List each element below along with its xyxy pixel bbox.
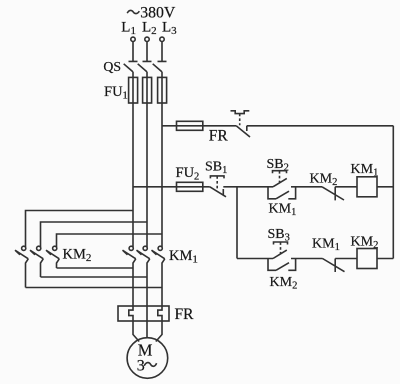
contact KM1 main pole 2: [137, 246, 150, 306]
contact KM1 NC interlock: [323, 259, 345, 273]
motor M: [127, 338, 168, 379]
svg-text:FR: FR: [209, 128, 229, 145]
wire to coil KM1: [335, 186, 357, 188]
svg-text:M: M: [138, 340, 153, 359]
wire KM2 aux branch right: [288, 259, 295, 271]
relay FR NC contact: [236, 126, 250, 137]
fuse FU2b on rung 2: [177, 182, 203, 191]
wire control rung 2 from L1 to fuse: [133, 186, 210, 188]
button SB1 actuator: [210, 176, 224, 179]
contact KM2 aux NO (self-hold): [276, 263, 289, 271]
wire main line 3: [161, 77, 163, 247]
wire SB2 right lead: [291, 186, 322, 188]
terminal L3: [160, 37, 164, 41]
wire KM1 aux branch left: [268, 187, 276, 199]
relay FR heater box: [118, 306, 169, 321]
button SB1 NC contact: [210, 187, 226, 197]
wire L3 to QS: [161, 42, 163, 62]
contact KM2 main pole 2: [30, 246, 43, 277]
svg-text:QS: QS: [103, 59, 121, 74]
wire rung 1 to right rail: [247, 125, 393, 127]
svg-text:3: 3: [137, 358, 145, 375]
wire main line 1: [132, 77, 134, 247]
wire to coil KM2: [335, 258, 357, 260]
button SB2 NO contact: [273, 178, 287, 186]
contact KM2 main pole 3: [46, 246, 59, 268]
svg-text:FR: FR: [175, 306, 195, 323]
button SB2 actuator: [273, 171, 287, 174]
wire rung 2: [237, 258, 273, 260]
wire control rung 1 from L3 to fuse: [162, 125, 236, 127]
fuse FU1 pole 1: [129, 77, 138, 103]
contact KM1 aux NO (self-hold): [276, 191, 289, 199]
wire branch L1 to KM2 pole 1: [26, 211, 134, 248]
coil KM2: [357, 249, 377, 269]
wire branch L3 to KM2 pole 3: [57, 234, 163, 247]
wire L1 to QS: [132, 42, 134, 62]
coil KM1: [357, 177, 377, 197]
relay FR heater element 1: [129, 306, 133, 321]
wire right rail: [392, 126, 394, 259]
node ~380V supply label: [127, 10, 139, 13]
terminal L1: [131, 37, 135, 41]
relay FR heater element 3: [158, 306, 162, 321]
wire main line 2: [146, 77, 148, 247]
relay FR thermal actuator: [231, 111, 250, 114]
wire heater to motor 1: [133, 321, 139, 342]
wire KM2 pole 3 output to line 1: [57, 267, 134, 269]
wire branch down to rung 2: [236, 187, 238, 259]
contact KM1 main pole 1: [123, 246, 136, 306]
terminal L2: [145, 37, 149, 41]
wire coil KM2 to rail: [377, 258, 393, 260]
fuse FU2a on rung 1: [177, 121, 203, 130]
wire KM2 pole 2 output to line 2: [41, 276, 148, 278]
wire line 2 through heater: [146, 306, 148, 321]
wire heater to motor 2: [146, 321, 148, 338]
fuse FU1 pole 2: [143, 77, 152, 103]
contact KM2 main pole 1: [15, 246, 28, 287]
button SB3 NO contact: [273, 250, 287, 258]
wire heater to motor 3: [156, 321, 162, 342]
fuse FU1 pole 3: [158, 77, 167, 103]
wire branch L2 to KM2 pole 2: [41, 222, 148, 247]
switch QS pole 2: [138, 61, 152, 77]
wire SB1 to SB2: [223, 186, 273, 188]
wire KM1 aux branch right: [288, 187, 295, 199]
wire L2 to QS: [146, 42, 148, 62]
switch QS pole 3: [153, 61, 167, 77]
switch QS pole 1: [124, 61, 138, 77]
wire KM2 aux branch left: [268, 259, 276, 271]
wire coil KM1 to rail: [377, 186, 393, 188]
button SB3 actuator: [274, 242, 288, 245]
contact KM1 main pole 3: [152, 246, 165, 306]
wire SB3 right lead: [291, 258, 323, 260]
wire KM2 pole 1 output to line 3: [26, 287, 163, 289]
contact KM2 NC interlock: [322, 187, 344, 201]
